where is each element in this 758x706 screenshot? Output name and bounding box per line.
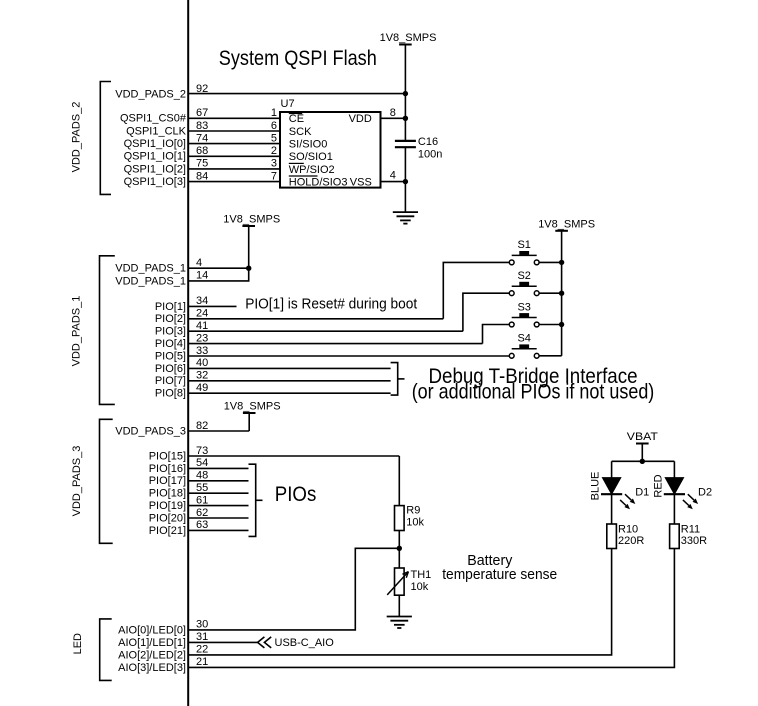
svg-text:7: 7 [271, 170, 277, 182]
wire VSS to ground [404, 182, 406, 213]
node junction pin92/rail [403, 91, 408, 96]
svg-text:VDD_PADS_3: VDD_PADS_3 [115, 425, 186, 437]
svg-text:62: 62 [196, 507, 208, 519]
svg-text:23: 23 [196, 332, 208, 344]
svg-text:34: 34 [196, 295, 208, 307]
svg-text:U7: U7 [281, 98, 295, 110]
svg-text:CE: CE [289, 113, 304, 125]
wire QSPI1_CLK pin 83 [126, 120, 280, 138]
svg-text:48: 48 [196, 470, 208, 482]
label Battery temperature sense [442, 553, 557, 583]
wire main IC edge bus [187, 0, 189, 706]
pin AIO[0]/LED[0] pin 30 [118, 619, 208, 637]
svg-text:QSPI1_IO[1]: QSPI1_IO[1] [124, 151, 186, 163]
svg-text:1V8_SMPS: 1V8_SMPS [224, 401, 281, 413]
switch S3 [509, 301, 539, 327]
bracket VDD_PADS_2 group [100, 82, 111, 195]
svg-text:PIO[1] is Reset# during boot: PIO[1] is Reset# during boot [245, 295, 418, 312]
wire AIO[1] to USB-C_AIO [188, 641, 257, 643]
svg-text:1V8_SMPS: 1V8_SMPS [380, 32, 437, 44]
svg-text:49: 49 [196, 382, 208, 394]
svg-text:VBAT: VBAT [627, 431, 658, 443]
wire VDD_PADS_1 pin 14 [115, 268, 248, 287]
wire VDD_PADS_1 pin 4 [115, 257, 248, 275]
svg-text:VDD_PADS_1: VDD_PADS_1 [115, 263, 186, 275]
svg-text:82: 82 [196, 420, 208, 432]
switch S2 [509, 270, 539, 296]
switch S4 [509, 333, 539, 359]
wire PIO[15] to R9 [398, 456, 400, 506]
node junction VBAT split [640, 459, 645, 464]
svg-text:55: 55 [196, 482, 208, 494]
power 1V8_SMPS (VDD_PADS_3) [224, 401, 281, 432]
wire PIO[18] pin 55 [149, 482, 249, 500]
wire PIO[20] pin 62 [149, 507, 249, 525]
wire PIO[8] pin 49 [155, 382, 391, 400]
svg-text:21: 21 [196, 656, 208, 668]
svg-text:S4: S4 [517, 333, 530, 345]
wire PIO[5] pin 33 [155, 345, 509, 363]
transistor TH1 thermistor 10k [387, 568, 431, 595]
label VDD_PADS_1 rotated [71, 296, 83, 367]
svg-text:1V8_SMPS: 1V8_SMPS [223, 214, 280, 226]
svg-text:R9: R9 [406, 505, 420, 517]
wire R11 to AIO[3] [188, 549, 674, 668]
svg-text:S2: S2 [517, 270, 530, 282]
switch S1 [509, 239, 539, 265]
wire QSPI1_IO[2] pin 75 [124, 158, 280, 176]
svg-text:WP/SIO2: WP/SIO2 [289, 164, 335, 176]
svg-text:SO/SIO1: SO/SIO1 [289, 151, 333, 163]
wire PIO[2] pin 24 [155, 308, 443, 326]
wire QSPI1_CS0# pin 67 [120, 107, 280, 125]
svg-text:PIO[19]: PIO[19] [149, 500, 186, 512]
wire PIO[7] pin 32 [155, 370, 391, 388]
capacitor C16 100n [395, 136, 442, 160]
wire S1 to rail [539, 261, 562, 263]
node junction pin4/rail [246, 266, 251, 271]
label PIOs [275, 482, 317, 506]
wire PIO[2] riser to S1 [443, 262, 509, 318]
label Debug T-Bridge Interface [412, 364, 655, 404]
wire PIO[3] riser to S2 [463, 293, 509, 331]
svg-text:41: 41 [196, 320, 208, 332]
node junction VDD/rail [403, 116, 408, 121]
svg-text:PIO[21]: PIO[21] [149, 525, 186, 537]
svg-text:S3: S3 [517, 301, 530, 313]
svg-text:QSPI1_IO[0]: QSPI1_IO[0] [124, 138, 186, 150]
node junction S3/rail [559, 322, 564, 327]
wire PIO[16] pin 54 [149, 457, 249, 475]
svg-text:QSPI1_IO[2]: QSPI1_IO[2] [124, 163, 186, 175]
wire node to AIO[0] [188, 548, 399, 630]
svg-text:32: 32 [196, 370, 208, 382]
wire rail to C16 [404, 94, 406, 141]
svg-text:75: 75 [196, 158, 208, 170]
net label VDD_PADS_2 [115, 88, 186, 100]
svg-text:10k: 10k [406, 516, 424, 528]
svg-text:SCK: SCK [289, 126, 312, 138]
svg-text:40: 40 [196, 357, 208, 369]
svg-text:6: 6 [271, 120, 277, 132]
power 1V8_SMPS (QSPI flash rail) [380, 32, 437, 94]
svg-text:HOLD/SIO3: HOLD/SIO3 [289, 177, 348, 189]
wire VDD_PADS_3 pin 82 [115, 420, 249, 438]
svg-text:14: 14 [196, 270, 208, 282]
wire PIO[1] pin 34 [155, 295, 237, 313]
pin AIO[3]/LED[3] pin 21 [118, 656, 208, 674]
bracket PIOs group [249, 464, 263, 536]
svg-text:VDD_PADS_2: VDD_PADS_2 [71, 102, 83, 173]
ground GND (thermistor) [387, 617, 412, 629]
svg-text:D2: D2 [698, 486, 712, 498]
svg-text:D1: D1 [635, 486, 649, 498]
svg-text:PIO[15]: PIO[15] [149, 450, 186, 462]
svg-text:92: 92 [196, 83, 208, 95]
svg-text:4: 4 [390, 169, 396, 181]
svg-text:PIO[5]: PIO[5] [155, 350, 186, 362]
svg-text:2: 2 [271, 145, 277, 157]
svg-text:SI/SIO0: SI/SIO0 [289, 139, 328, 151]
svg-text:PIO[6]: PIO[6] [155, 363, 186, 375]
svg-text:VDD_PADS_1: VDD_PADS_1 [71, 296, 83, 367]
wire PIO[4] riser to S3 [483, 325, 510, 344]
wire QSPI1_IO[0] pin 74 [124, 132, 280, 150]
svg-text:10k: 10k [411, 581, 429, 593]
svg-text:54: 54 [196, 457, 208, 469]
svg-text:AIO[2]/LED[2]: AIO[2]/LED[2] [118, 649, 186, 661]
wire VBAT to LED branches [612, 460, 675, 462]
wire C16 to VSS node [404, 147, 406, 181]
svg-text:PIO[20]: PIO[20] [149, 512, 186, 524]
svg-text:S1: S1 [517, 239, 530, 251]
svg-text:VSS: VSS [350, 177, 372, 189]
wire PIO[21] pin 63 [149, 519, 249, 537]
diode D1 BLUE LED [590, 461, 650, 524]
svg-text:PIO[8]: PIO[8] [155, 388, 186, 400]
wire PIO[15] pin 73 [149, 445, 400, 463]
svg-text:330R: 330R [681, 535, 707, 547]
svg-text:PIO[1]: PIO[1] [155, 301, 186, 313]
wire U7 VSS pin 4 [381, 169, 406, 181]
svg-text:QSPI1_CLK: QSPI1_CLK [126, 125, 187, 137]
svg-text:PIO[4]: PIO[4] [155, 338, 186, 350]
wire TH1 to ground [398, 595, 400, 616]
svg-text:QSPI1_CS0#: QSPI1_CS0# [120, 113, 187, 125]
wire R9 to node [398, 531, 400, 549]
svg-text:5: 5 [271, 132, 277, 144]
svg-text:24: 24 [196, 308, 208, 320]
svg-text:73: 73 [196, 445, 208, 457]
power 1V8_SMPS (VDD_PADS_1) [223, 214, 280, 269]
resistor R9 10k [395, 505, 425, 531]
wire PIO[17] pin 48 [149, 470, 249, 488]
node junction S2/rail [559, 291, 564, 296]
svg-text:PIOs: PIOs [275, 482, 317, 506]
svg-text:QSPI1_IO[3]: QSPI1_IO[3] [124, 176, 186, 188]
svg-text:83: 83 [196, 120, 208, 132]
wire QSPI1_IO[1] pin 68 [124, 145, 280, 163]
power 1V8_SMPS (buttons rail) [538, 218, 595, 355]
svg-text:68: 68 [196, 145, 208, 157]
svg-text:1: 1 [271, 107, 277, 119]
svg-text:PIO[2]: PIO[2] [155, 313, 186, 325]
svg-text:AIO[3]/LED[3]: AIO[3]/LED[3] [118, 662, 186, 674]
svg-text:PIO[17]: PIO[17] [149, 475, 186, 487]
wire PIO[4] pin 23 [155, 332, 483, 350]
label VDD_PADS_3 rotated [71, 446, 83, 517]
wire QSPI1_IO[3] pin 84 [124, 170, 280, 188]
wire S3 to rail [539, 324, 562, 326]
node junction VSS/rail [403, 179, 408, 184]
wire VDD_PADS_2 pin 92 to rail [188, 93, 405, 95]
wire PIO[19] pin 61 [149, 494, 249, 512]
svg-text:84: 84 [196, 170, 208, 182]
svg-text:4: 4 [196, 257, 202, 269]
pin AIO[1]/LED[1] pin 31 [118, 631, 208, 649]
svg-text:100n: 100n [418, 148, 442, 160]
svg-text:VDD_PADS_2: VDD_PADS_2 [115, 88, 186, 100]
wire PIO[3] pin 41 [155, 320, 463, 338]
svg-text:R10: R10 [618, 523, 638, 535]
svg-text:30: 30 [196, 619, 208, 631]
svg-text:PIO[7]: PIO[7] [155, 375, 186, 387]
svg-text:BLUE: BLUE [590, 472, 602, 501]
label System QSPI Flash title [219, 46, 377, 70]
wire R10 to AIO[2] [188, 549, 611, 655]
wire PIO[5] to S4 [508, 355, 510, 357]
svg-text:22: 22 [196, 644, 208, 656]
resistor R11 330R [670, 523, 708, 548]
svg-text:temperature sense: temperature sense [442, 567, 557, 583]
label PIO[1] reset note [245, 295, 418, 312]
svg-text:AIO[1]/LED[1]: AIO[1]/LED[1] [118, 637, 186, 649]
label LED rotated [72, 633, 84, 654]
svg-text:R11: R11 [681, 523, 700, 535]
svg-text:PIO[18]: PIO[18] [149, 488, 186, 500]
svg-text:TH1: TH1 [411, 569, 432, 581]
wire node to TH1 [398, 548, 400, 568]
svg-text:1V8_SMPS: 1V8_SMPS [538, 218, 595, 230]
diode D2 RED LED [652, 461, 712, 524]
svg-text:VDD: VDD [349, 113, 372, 125]
node junction R9/TH1/AIO0 [397, 546, 402, 551]
svg-text:8: 8 [390, 107, 396, 119]
svg-text:(or additional PIOs if not use: (or additional PIOs if not used) [412, 380, 655, 404]
svg-text:63: 63 [196, 519, 208, 531]
svg-text:31: 31 [196, 631, 208, 643]
pin AIO[2]/LED[2] pin 22 [118, 644, 208, 662]
wire U7 VDD pin 8 [381, 107, 406, 119]
wire S4 to rail [539, 355, 562, 357]
svg-text:220R: 220R [618, 535, 644, 547]
svg-text:C16: C16 [418, 136, 438, 148]
svg-text:61: 61 [196, 494, 208, 506]
node junction S1/rail [559, 260, 564, 265]
pin number 92 [196, 83, 208, 95]
svg-text:74: 74 [196, 132, 208, 144]
label VDD_PADS_2 rotated [71, 102, 83, 173]
bracket LED group [100, 619, 112, 681]
svg-text:VDD_PADS_3: VDD_PADS_3 [71, 446, 83, 517]
power VBAT [627, 431, 658, 461]
svg-text:VDD_PADS_1: VDD_PADS_1 [115, 275, 186, 287]
op-amp U7 QSPI flash chip [280, 98, 381, 189]
svg-text:AIO[0]/LED[0]: AIO[0]/LED[0] [118, 624, 186, 636]
bracket VDD_PADS_3 group [100, 419, 113, 543]
svg-text:USB-C_AIO: USB-C_AIO [275, 637, 335, 649]
svg-text:System QSPI Flash: System QSPI Flash [219, 46, 377, 70]
ground GND (QSPI) [393, 212, 418, 224]
svg-text:33: 33 [196, 345, 208, 357]
svg-text:PIO[16]: PIO[16] [149, 463, 186, 475]
svg-text:LED: LED [72, 633, 84, 654]
bracket debug PIO group [391, 363, 405, 396]
svg-text:3: 3 [271, 158, 277, 170]
svg-text:67: 67 [196, 107, 208, 119]
resistor R10 220R [607, 523, 645, 548]
wire PIO[6] pin 40 [155, 357, 391, 375]
node USB-C_AIO off-page chevron [258, 637, 335, 649]
wire S2 to rail [539, 292, 562, 294]
svg-text:PIO[3]: PIO[3] [155, 326, 186, 338]
bracket VDD_PADS_1 group [100, 256, 115, 405]
svg-text:RED: RED [652, 474, 664, 497]
